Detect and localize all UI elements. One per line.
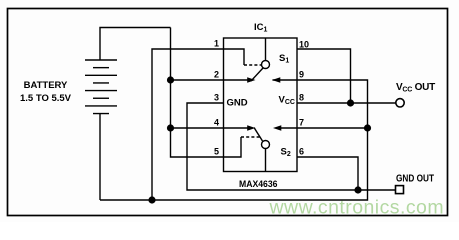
svg-text:4: 4 bbox=[214, 117, 219, 127]
svg-text:1: 1 bbox=[214, 38, 219, 48]
svg-text:GND: GND bbox=[227, 97, 248, 108]
svg-text:10: 10 bbox=[299, 39, 309, 49]
svg-text:8: 8 bbox=[299, 92, 304, 102]
svg-text:MAX4636: MAX4636 bbox=[239, 179, 278, 190]
svg-text:7: 7 bbox=[299, 117, 304, 127]
svg-text:5: 5 bbox=[214, 146, 219, 156]
svg-text:IC1: IC1 bbox=[254, 22, 268, 34]
svg-text:9: 9 bbox=[299, 69, 304, 79]
svg-text:3: 3 bbox=[214, 92, 219, 102]
svg-text:1.5 TO 5.5V: 1.5 TO 5.5V bbox=[20, 93, 72, 104]
svg-text:S2: S2 bbox=[281, 147, 291, 159]
svg-text:S1: S1 bbox=[279, 53, 289, 65]
svg-text:GND OUT: GND OUT bbox=[396, 173, 434, 185]
svg-text:6: 6 bbox=[299, 146, 304, 156]
svg-text:VCC OUT: VCC OUT bbox=[396, 82, 435, 94]
svg-text:BATTERY: BATTERY bbox=[24, 80, 68, 91]
svg-text:2: 2 bbox=[214, 69, 219, 79]
svg-text:VCC: VCC bbox=[279, 94, 295, 106]
